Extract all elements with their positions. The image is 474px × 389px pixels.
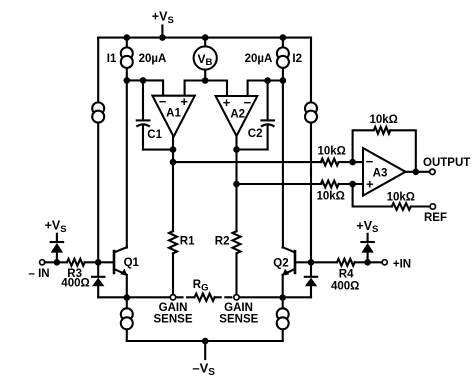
current source I2 xyxy=(245,47,302,68)
op-amp A2 xyxy=(216,95,258,136)
junction +IN diode xyxy=(364,259,371,266)
wire right tail column xyxy=(282,297,284,341)
svg-text:A1: A1 xyxy=(166,108,181,120)
junction top rail VB xyxy=(202,34,209,41)
capacitor C1 xyxy=(136,80,162,149)
wire A1 output column xyxy=(172,137,174,232)
terminal -IN xyxy=(40,260,45,265)
svg-text:10kΩ: 10kΩ xyxy=(387,191,415,203)
voltage source VB xyxy=(194,46,217,69)
wire I1 to A1 inverting input xyxy=(127,80,163,95)
junction top rail I2 xyxy=(280,34,287,41)
svg-text:GAIN: GAIN xyxy=(159,302,188,314)
wire A2 output to A3 noninverting input xyxy=(237,183,322,185)
wire 10k to A3 minus pin xyxy=(339,161,363,163)
wire A3 output xyxy=(406,171,430,173)
resistor 10k A3 inverting input xyxy=(321,159,339,166)
wire dashed RG to gain sense right xyxy=(215,296,233,298)
junction A1 output branch xyxy=(170,159,177,166)
svg-text:C2: C2 xyxy=(248,128,263,140)
wire bottom rail xyxy=(127,340,283,342)
svg-text:GAIN: GAIN xyxy=(224,302,253,314)
wire R3 to Q1 base xyxy=(85,261,114,263)
junction VB bottom xyxy=(202,77,209,84)
junction A1 output C1 xyxy=(170,146,177,153)
wire -IN to R3 xyxy=(45,261,67,263)
op-amp A1 xyxy=(152,94,194,136)
diode Q1 base-emitter clamp xyxy=(92,262,104,297)
terminal gain sense right xyxy=(234,295,239,300)
wire top supply rail xyxy=(98,37,311,39)
diode -IN clamp to +VS xyxy=(51,234,63,262)
wire I2 column xyxy=(282,38,284,81)
wire A3 feedback loop xyxy=(353,130,374,162)
current source I1 xyxy=(107,47,167,68)
svg-text:OUTPUT: OUTPUT xyxy=(423,157,470,169)
wire R1 to gain sense xyxy=(172,253,174,294)
wire A2 output column xyxy=(235,136,237,231)
junction C1 top xyxy=(140,77,147,84)
terminal REF xyxy=(430,204,435,209)
wire C2 to A2 output xyxy=(237,148,268,150)
wire feedback to output node xyxy=(390,130,416,172)
junction Q1 base rail xyxy=(95,259,102,266)
wire Q2 collector column xyxy=(282,81,284,248)
junction top rail I1 xyxy=(124,34,131,41)
node +VS stub top xyxy=(161,26,163,38)
terminal +IN xyxy=(382,260,387,265)
terminal OUTPUT xyxy=(430,169,435,174)
svg-text:10kΩ: 10kΩ xyxy=(317,191,345,203)
svg-text:C1: C1 xyxy=(147,129,162,141)
svg-text:R1: R1 xyxy=(180,235,195,247)
svg-text:I1: I1 xyxy=(107,53,117,65)
svg-text:20µA: 20µA xyxy=(245,53,273,65)
junction I1 collector xyxy=(124,77,131,84)
svg-text:400Ω: 400Ω xyxy=(61,277,89,289)
wire left rail vertical xyxy=(97,38,99,263)
junction C2 top xyxy=(264,77,271,84)
resistor 10k feedback xyxy=(374,127,391,134)
junction Q2 base rail xyxy=(308,259,315,266)
svg-text:+IN: +IN xyxy=(393,259,411,271)
svg-text:A3: A3 xyxy=(373,167,388,179)
junction top rail +VS xyxy=(159,34,166,41)
resistor 10k A3 noninverting input xyxy=(321,181,339,188)
junction -VS xyxy=(202,338,209,345)
diode +IN clamp to +VS xyxy=(361,234,373,262)
svg-text:10kΩ: 10kΩ xyxy=(318,146,346,158)
capacitor C2 xyxy=(248,81,275,150)
svg-text:SENSE: SENSE xyxy=(154,314,193,326)
junction A2 output branch xyxy=(233,181,240,188)
resistor R2 xyxy=(215,231,241,253)
junction I2 collector xyxy=(280,77,287,84)
svg-text:SENSE: SENSE xyxy=(219,314,258,326)
wire A1 output to A3 inverting input xyxy=(173,161,321,163)
wire Q2 base to R4 xyxy=(311,261,337,263)
diode Q2 base-emitter clamp xyxy=(305,262,317,297)
svg-text:10kΩ: 10kΩ xyxy=(370,114,398,126)
junction -IN diode xyxy=(54,259,61,266)
junction A3 output node xyxy=(413,169,420,176)
wire R4 to +IN xyxy=(355,261,382,263)
svg-text:A2: A2 xyxy=(230,109,245,121)
junction A3 noninverting node xyxy=(349,181,356,188)
node -VS stub xyxy=(204,341,206,359)
svg-text:I2: I2 xyxy=(292,53,302,65)
wire I1 column xyxy=(126,38,128,81)
wire R2 to gain sense xyxy=(235,253,237,294)
wire emitter line left xyxy=(98,296,170,298)
wire A2 inverting input to I2 xyxy=(248,81,283,97)
wire emitter line right xyxy=(240,296,312,298)
resistor R4 xyxy=(331,259,359,293)
svg-text:−: − xyxy=(244,95,252,110)
svg-text:20µA: 20µA xyxy=(139,53,167,65)
svg-text:– IN: – IN xyxy=(29,268,50,280)
resistor RG xyxy=(193,279,215,301)
wire dashed gain sense left to RG xyxy=(177,296,195,298)
junction Q2 emitter xyxy=(279,294,286,301)
current source left tail xyxy=(121,308,133,329)
wire VB to A1/A2 noninverting inputs xyxy=(185,81,227,97)
current source right tail xyxy=(277,308,289,329)
resistor R1 xyxy=(169,231,195,253)
current source on left rail xyxy=(92,102,104,122)
transistor Q1 xyxy=(114,247,140,297)
wire Q2 base xyxy=(295,261,311,263)
svg-text:Q2: Q2 xyxy=(273,257,288,269)
svg-text:+: + xyxy=(180,94,188,109)
wire right rail vertical xyxy=(310,38,312,263)
junction Q1 emitter xyxy=(124,294,131,301)
wire VB column xyxy=(204,38,206,81)
transistor Q2 xyxy=(273,247,295,297)
wire 10k to REF terminal xyxy=(411,205,430,207)
svg-text:Q1: Q1 xyxy=(124,257,140,269)
wire left tail column xyxy=(126,297,128,341)
label gain sense left xyxy=(154,302,193,326)
op-amp A3 xyxy=(363,148,406,196)
svg-text:R2: R2 xyxy=(215,235,230,247)
wire A3 plus node to REF resistor xyxy=(353,184,392,207)
svg-text:400Ω: 400Ω xyxy=(331,281,359,293)
resistor R3 xyxy=(61,259,89,289)
resistor 10k REF xyxy=(392,203,411,210)
svg-text:REF: REF xyxy=(424,212,447,224)
junction A3 inverting node xyxy=(349,159,356,166)
wire 10k to A3 plus pin xyxy=(339,183,363,185)
wire Q1 collector column xyxy=(126,80,128,247)
current source on right rail xyxy=(305,102,317,122)
svg-text:+: + xyxy=(223,95,231,110)
junction A2 output C2 xyxy=(233,146,240,153)
label gain sense right xyxy=(219,302,258,326)
svg-text:R4: R4 xyxy=(339,268,354,280)
terminal gain sense left xyxy=(170,295,175,300)
wire C1 to A1 output xyxy=(143,149,173,151)
